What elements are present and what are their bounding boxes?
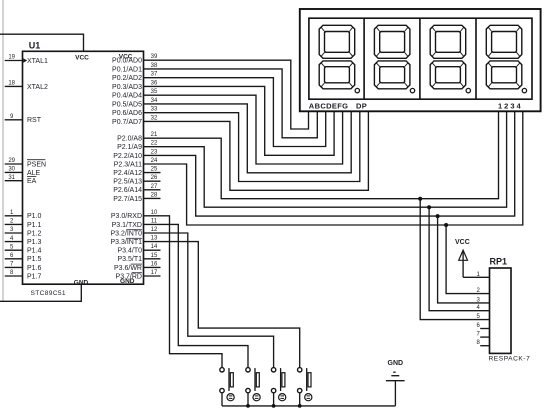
svg-text:P1.3: P1.3 [27, 239, 42, 246]
svg-text:P0.3/AD3: P0.3/AD3 [112, 84, 142, 91]
svg-text:P2.7/A15: P2.7/A15 [113, 196, 142, 203]
svg-text:P1.0: P1.0 [27, 213, 42, 220]
wire P0.0 to display segment A [144, 60, 309, 129]
pin 38 P0.1/AD1 [112, 63, 158, 73]
wire P0.7 to display segment DP [144, 111, 369, 190]
pin 28 P2.7/A15 [113, 192, 160, 202]
svg-text:RESPACK-7: RESPACK-7 [489, 356, 531, 363]
RP1 pin 2 [476, 288, 480, 294]
svg-text:P3.7/RD: P3.7/RD [116, 273, 142, 280]
wire digit 3 line to RP1 pin 3 [438, 216, 490, 303]
pin 18 XTAL2 [5, 81, 48, 91]
svg-text:22: 22 [151, 141, 158, 147]
svg-text:29: 29 [8, 158, 15, 164]
svg-text:DP: DP [356, 102, 367, 111]
pin 3 P1.2 [5, 227, 42, 237]
wire rail to ground symbol [394, 381, 396, 406]
wire P2.3 to display digit 4 [144, 111, 523, 225]
display digit 1 [319, 25, 359, 93]
svg-text:15: 15 [151, 253, 158, 259]
wire digit 2 line to RP1 pin 4 [429, 207, 489, 311]
svg-text:P1.1: P1.1 [27, 222, 42, 229]
svg-text:14: 14 [151, 244, 158, 250]
pin 26 P2.5/A13 [113, 175, 160, 185]
pin 32 P0.7/AD7 [112, 115, 158, 125]
pin 4 P1.3 [5, 236, 42, 246]
svg-text:P0.1/AD1: P0.1/AD1 [112, 66, 142, 73]
wire P0.3 to display segment D [144, 86, 335, 155]
pin 30 ALE [5, 167, 41, 177]
VCC power symbol [459, 250, 468, 277]
pin 1 P1.0 [5, 210, 42, 220]
pin 24 P2.3/A11 [114, 158, 158, 168]
svg-text:P3.1/TXD: P3.1/TXD [112, 222, 142, 229]
pin 36 P0.3/AD3 [112, 80, 158, 90]
wire P0.2 to display segment C [144, 78, 326, 147]
svg-text:EA: EA [27, 178, 37, 185]
pin 13 P3.3/INT1 [110, 236, 158, 246]
svg-text:38: 38 [151, 63, 158, 69]
pin 21 P2.0/A8 [117, 132, 158, 142]
svg-text:10: 10 [151, 210, 158, 216]
svg-text:U1: U1 [29, 40, 41, 50]
pin 12 P3.2/INT0 [110, 227, 158, 237]
wire P3.2 to button 3 [144, 233, 274, 368]
svg-text:GND: GND [74, 280, 89, 287]
wire digit 4 line to RP1 pin 2 [446, 225, 489, 294]
svg-text:P1.2: P1.2 [27, 230, 42, 237]
pin 2 P1.1 [5, 219, 42, 229]
wire U1 GND pin to left edge [0, 284, 81, 301]
push button 3 [271, 368, 285, 401]
svg-text:P1.6: P1.6 [27, 265, 42, 272]
pin 11 P3.1/TXD [112, 218, 158, 228]
svg-text:P1.4: P1.4 [27, 248, 42, 255]
svg-text:26: 26 [151, 175, 158, 181]
svg-text:P0.6/AD6: P0.6/AD6 [112, 110, 142, 117]
pin 25 P2.4/A12 [113, 167, 160, 177]
pin 17 P3.7/RD [116, 270, 161, 280]
svg-text:VCC: VCC [75, 55, 89, 62]
wire button 2 to ground rail [247, 393, 249, 406]
ground rail wire [222, 405, 395, 407]
pin 14 P3.4/T0 [117, 244, 160, 254]
display digit 2 [374, 25, 414, 93]
screen clip edge line [2, 0, 4, 301]
svg-text:1234: 1234 [498, 102, 523, 111]
pin 27 P2.6/A14 [113, 184, 160, 194]
junction rail button 3 [272, 404, 276, 408]
svg-text:XTAL1: XTAL1 [27, 58, 48, 65]
wire P2.2 to display digit 3 [144, 111, 515, 216]
wire P3.0 to button 1 [144, 216, 223, 368]
svg-text:17: 17 [151, 270, 158, 276]
push button 1 [220, 368, 234, 401]
wire button 1 to ground rail [221, 393, 223, 406]
ground symbol [386, 372, 405, 381]
svg-text:P0.4/AD4: P0.4/AD4 [112, 93, 142, 100]
svg-text:18: 18 [8, 81, 15, 87]
svg-text:28: 28 [151, 192, 158, 198]
svg-text:P3.2/INT0: P3.2/INT0 [110, 230, 142, 237]
wire P0.6 to display segment G [144, 111, 360, 182]
wire P2.1 to display digit 2 [144, 111, 507, 207]
junction digit 4 [444, 223, 448, 227]
svg-text:RP1: RP1 [490, 257, 508, 267]
svg-text:37: 37 [151, 72, 158, 78]
wire digit 1 line to RP1 pin 5 [420, 199, 489, 320]
svg-text:P1.5: P1.5 [27, 256, 42, 263]
junction digit 1 [418, 197, 422, 201]
svg-text:P0.5/AD5: P0.5/AD5 [112, 101, 142, 108]
wire VCC to RP1 pin 1 [463, 276, 489, 278]
pin 23 P2.2/A10 [113, 149, 158, 159]
pin 29 PSEN [5, 158, 46, 168]
svg-text:34: 34 [151, 98, 158, 104]
svg-text:P3.3/INT1: P3.3/INT1 [110, 239, 142, 246]
svg-text:36: 36 [151, 80, 158, 86]
svg-text:ABCDEFG: ABCDEFG [309, 102, 349, 111]
junction digit 3 [436, 214, 440, 218]
wire VCC to U1 top pin [0, 34, 84, 51]
svg-text:P2.4/A12: P2.4/A12 [113, 170, 142, 177]
svg-text:13: 13 [151, 236, 158, 242]
svg-text:27: 27 [151, 184, 158, 190]
svg-text:P2.0/A8: P2.0/A8 [117, 136, 142, 143]
svg-text:P3.5/T1: P3.5/T1 [117, 256, 142, 263]
pin 15 P3.5/T1 [117, 253, 160, 263]
svg-text:PSEN: PSEN [27, 161, 46, 168]
svg-text:P3.4/T0: P3.4/T0 [117, 248, 142, 255]
svg-text:VCC: VCC [455, 239, 470, 246]
pin 33 P0.6/AD6 [112, 107, 158, 117]
svg-text:P2.1/A9: P2.1/A9 [117, 144, 142, 151]
svg-text:P2.3/A11: P2.3/A11 [114, 161, 142, 168]
svg-text:ALE: ALE [27, 170, 41, 177]
svg-text:25: 25 [151, 167, 158, 173]
pin 39 P0.0/AD0 [112, 54, 158, 64]
RP1 pin 7 [476, 332, 489, 338]
svg-text:STC89C51: STC89C51 [31, 290, 66, 297]
svg-text:GND: GND [388, 360, 404, 367]
svg-text:P2.6/A14: P2.6/A14 [113, 187, 142, 194]
pin 19 XTAL1 [5, 55, 48, 65]
RP1 pin 1 [476, 272, 480, 278]
wire P0.4 to display segment E [144, 95, 343, 164]
wire P3.1 to button 2 [144, 224, 249, 367]
svg-text:33: 33 [151, 107, 158, 113]
pin 22 P2.1/A9 [117, 141, 158, 151]
RP1 pin 6 [476, 323, 489, 329]
svg-text:XTAL2: XTAL2 [27, 84, 48, 91]
wire button 4 to ground rail [299, 393, 301, 406]
wire button 3 to ground rail [273, 393, 275, 406]
svg-text:P2.2/A10: P2.2/A10 [113, 153, 142, 160]
junction rail button 4 [298, 404, 302, 408]
svg-text:31: 31 [8, 175, 15, 181]
pin 10 P3.0/RXD [111, 210, 158, 220]
pin 7 P1.6 [5, 262, 42, 272]
pin 8 P1.7 [5, 270, 42, 280]
RP1 pin 4 [476, 305, 480, 311]
push button 4 [298, 368, 312, 401]
pin 5 P1.4 [5, 244, 42, 254]
svg-text:P3.0/RXD: P3.0/RXD [111, 213, 142, 220]
svg-text:P3.6/WR: P3.6/WR [114, 265, 142, 272]
MCU U1 STC89C51 body [23, 51, 144, 284]
pin 35 P0.4/AD4 [112, 89, 158, 99]
svg-text:RST: RST [27, 117, 42, 124]
pin 34 P0.5/AD5 [112, 98, 158, 108]
wire P2.0 to display digit 1 [144, 111, 499, 199]
RP1 pin 8 [476, 340, 489, 346]
junction rail button 2 [246, 404, 250, 408]
svg-text:35: 35 [151, 89, 158, 95]
wire P3.3 to button 4 [144, 242, 300, 368]
wire P0.1 to display segment B [144, 69, 318, 138]
svg-text:P2.5/A13: P2.5/A13 [113, 179, 142, 186]
push button 2 [246, 368, 260, 401]
svg-text:39: 39 [151, 54, 158, 60]
svg-text:30: 30 [8, 167, 15, 173]
RP1 pin 3 [476, 297, 480, 303]
svg-text:P1.7: P1.7 [27, 273, 42, 280]
svg-text:24: 24 [151, 158, 158, 164]
svg-text:32: 32 [151, 115, 158, 121]
pin 6 P1.5 [5, 253, 42, 263]
wire P0.5 to display segment F [144, 104, 352, 173]
pin 37 P0.2/AD2 [112, 72, 158, 82]
svg-text:P0.0/AD0: P0.0/AD0 [112, 58, 142, 65]
resistor pack RP1 body [490, 268, 512, 353]
svg-text:16: 16 [151, 261, 158, 267]
svg-text:23: 23 [151, 149, 158, 155]
svg-text:19: 19 [8, 55, 15, 61]
svg-text:12: 12 [151, 227, 158, 233]
display cell grid [309, 18, 532, 99]
svg-text:P0.7/AD7: P0.7/AD7 [112, 119, 142, 126]
display digit 3 [430, 25, 470, 93]
pin 16 P3.6/WR [114, 261, 161, 271]
svg-text:21: 21 [151, 132, 158, 138]
svg-text:11: 11 [151, 218, 158, 224]
pin 9 RST [5, 114, 42, 124]
pin 31 EA [5, 175, 37, 185]
RP1 pin 5 [476, 314, 480, 320]
7-segment display frame [300, 9, 541, 111]
junction digit 2 [427, 205, 431, 209]
svg-text:P0.2/AD2: P0.2/AD2 [112, 75, 142, 82]
display digit 4 [486, 25, 526, 93]
